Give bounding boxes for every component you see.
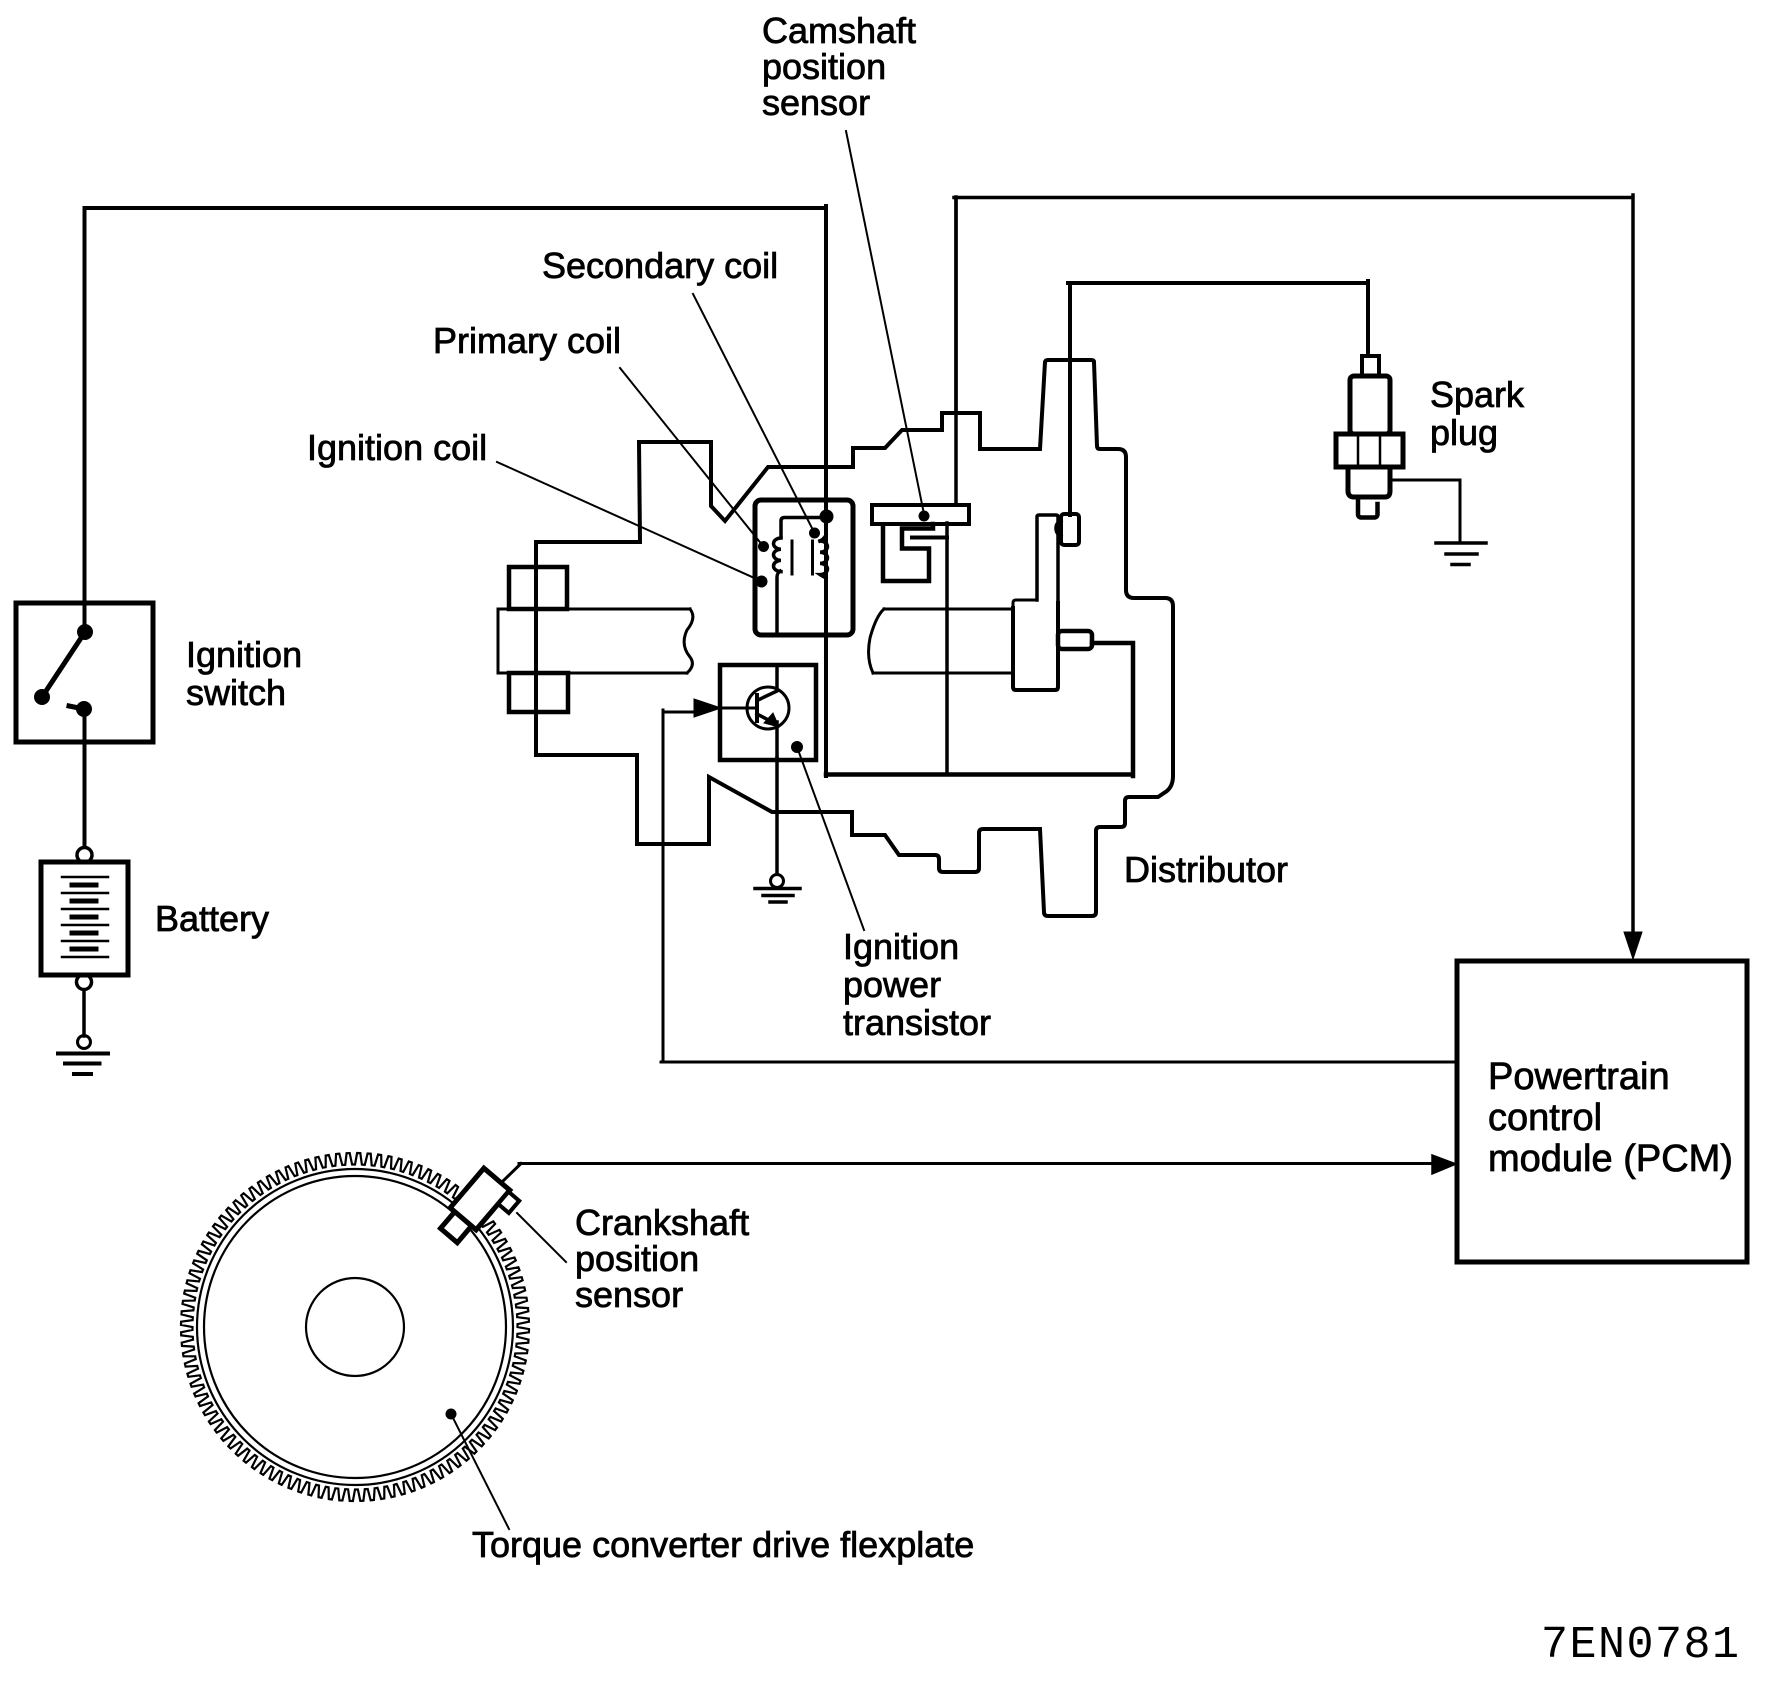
ignition coil inner top wire <box>781 518 826 538</box>
transistor leader line <box>797 747 864 930</box>
ground at spark plug <box>1436 543 1486 565</box>
ignition switch box <box>16 603 153 742</box>
battery box <box>41 862 128 975</box>
distributor shaft center line <box>945 523 949 774</box>
transistor base wire <box>721 707 757 710</box>
spark plug hex <box>1336 434 1403 467</box>
distributor left shaft lower mount rect <box>509 673 568 712</box>
flexplate rim circles <box>197 1169 513 1485</box>
label Distributor <box>1124 849 1288 891</box>
drawing number 7EN0781 <box>1541 1620 1741 1671</box>
camshaft sensor stub bar <box>912 536 947 540</box>
transistor collector <box>758 665 777 700</box>
spark plug insulator body <box>1350 376 1390 434</box>
ground below battery <box>58 1036 108 1075</box>
junction dot coil feed <box>820 510 834 524</box>
distributor left shaft upper mount rect <box>509 567 567 609</box>
transistor base bar <box>755 695 759 721</box>
label Torque converter drive flexplate <box>472 1524 974 1566</box>
label Battery <box>155 898 269 940</box>
wire PCM to transistor base <box>661 710 1457 1062</box>
arrow into PCM top <box>1624 932 1642 959</box>
battery top terminal <box>77 848 92 863</box>
flexplate hub circle <box>306 1278 404 1376</box>
label Powertrain control module <box>1488 1057 1733 1180</box>
wire from ignition switch up and across top to ignition coil feed <box>85 208 825 632</box>
primary coil leader dot <box>758 541 769 552</box>
ignition coil leader dot <box>756 576 768 588</box>
label Ignition power transistor <box>843 928 991 1042</box>
crankshaft position sensor body <box>441 1168 520 1243</box>
ignition switch contacts and blade <box>42 632 85 709</box>
rotor upper contact tab <box>1056 521 1061 536</box>
wire camshaft sensor feed <box>954 197 958 505</box>
label Secondary coil <box>542 245 778 287</box>
wire transistor emitter to ground <box>775 758 779 874</box>
label Spark plug <box>1430 376 1524 452</box>
spark plug terminal <box>1362 356 1379 376</box>
coil core lines <box>792 541 813 574</box>
wire spark plug high tension lead <box>1068 281 1368 515</box>
arrowhead into PCM left <box>1432 1155 1456 1174</box>
ground below transistor <box>755 875 800 903</box>
label Ignition switch <box>186 636 302 712</box>
flexplate leader line <box>451 1414 509 1529</box>
camshaft position sensor plate <box>872 505 969 524</box>
PCM box <box>1457 961 1747 1262</box>
distributor shaft plate <box>1013 603 1058 690</box>
wire from distributor top to PCM across top <box>954 195 1633 938</box>
secondary coil leader line <box>693 294 814 532</box>
wire crankshaft sensor to PCM <box>501 1164 1434 1184</box>
rotor upper contact <box>1061 514 1079 545</box>
secondary coil leader dot <box>809 528 820 539</box>
label Camshaft position sensor <box>762 13 916 121</box>
wire ignition switch to battery <box>83 712 87 847</box>
spark plug shell <box>1348 467 1390 497</box>
base drive arrowhead <box>694 699 721 717</box>
wire battery to ground <box>82 990 86 1036</box>
crankshaft sensor leader line <box>517 1213 566 1262</box>
distributor left shaft bar with break <box>498 609 693 673</box>
transistor emitter <box>757 714 777 760</box>
rotor lower contact <box>1058 631 1092 649</box>
distributor rotor column <box>1037 515 1058 600</box>
ignition coil leader line <box>497 462 761 581</box>
transistor leader dot <box>791 741 803 753</box>
distributor right shaft bar with break <box>869 609 1013 673</box>
battery plates <box>62 877 108 957</box>
wire secondary circuit from coil bottom right to rotor connector <box>826 643 1133 776</box>
wire spark plug to ground <box>1390 480 1460 540</box>
secondary winding <box>820 535 828 578</box>
camshaft position sensor body <box>883 524 933 581</box>
label Primary coil <box>433 320 621 362</box>
ignition coil box <box>755 500 853 635</box>
spark plug hex facets <box>1358 436 1380 465</box>
flexplate leader dot <box>446 1409 457 1420</box>
camshaft sensor leader dot <box>919 511 930 522</box>
spark plug electrodes <box>1358 497 1378 518</box>
primary coil leader line <box>620 368 763 546</box>
camshaft sensor leader line <box>846 131 924 514</box>
transistor Q1 circle <box>747 687 789 729</box>
battery bottom terminal <box>77 975 92 990</box>
ignition power transistor box <box>720 665 816 760</box>
wire ignition coil feed vertical down through coil box <box>824 206 828 776</box>
distributor outline <box>536 360 1173 916</box>
label Crankshaft position sensor <box>575 1205 749 1313</box>
primary winding <box>774 538 782 572</box>
label Ignition coil <box>307 427 487 469</box>
primary winding to transistor wire <box>777 571 780 635</box>
transistor emitter arrowhead <box>764 713 779 727</box>
flexplate ring gear teeth <box>181 1153 529 1501</box>
